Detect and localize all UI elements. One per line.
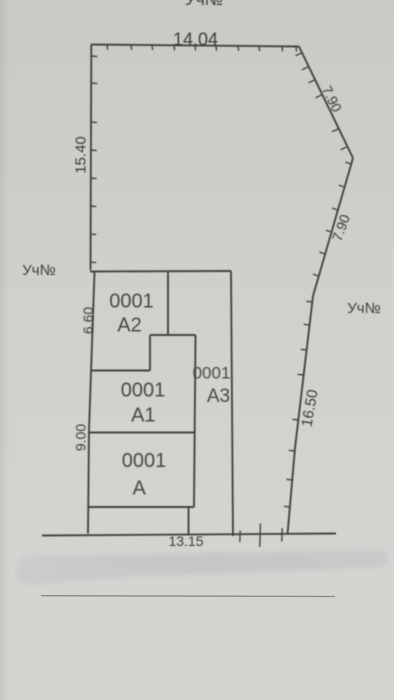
boundary E diagonal (7.90 lower) <box>313 158 353 296</box>
boundary top (14.04) <box>91 45 299 47</box>
svg-text:0001: 0001 <box>122 450 167 472</box>
building block left edge <box>88 272 95 534</box>
svg-text:14.04: 14.04 <box>173 30 218 50</box>
step vertical A2 bottom <box>149 335 151 371</box>
svg-text:Уч№: Уч№ <box>185 0 223 9</box>
svg-text:А2: А2 <box>117 315 141 337</box>
svg-text:А: А <box>133 478 147 500</box>
boundary bottom street line (13.15) <box>42 534 336 536</box>
svg-text:6.60: 6.60 <box>80 307 96 334</box>
svg-text:0001: 0001 <box>121 380 166 402</box>
step vertical below A <box>188 507 190 534</box>
boundary left side (15.40) <box>90 45 93 271</box>
svg-text:9.00: 9.00 <box>72 424 88 451</box>
svg-text:А1: А1 <box>131 405 155 427</box>
svg-text:Уч№: Уч№ <box>347 300 380 317</box>
boundary SE long side (16.50) <box>288 296 314 535</box>
A bottom edge <box>89 506 194 508</box>
divider A2 | A3 <box>167 271 169 335</box>
divider A1 | A <box>90 432 195 434</box>
paper left edge shading <box>0 0 10 700</box>
ticks on SE side <box>284 301 312 507</box>
step horizontal under A2 right <box>150 334 196 336</box>
svg-text:0001: 0001 <box>109 291 154 313</box>
A1/A right edge <box>194 335 196 507</box>
building block top edge <box>90 270 231 273</box>
A2 bottom-left horizontal <box>92 370 151 372</box>
boundary NE diagonal (7.90 upper) <box>299 47 353 159</box>
svg-text:Уч№: Уч№ <box>22 262 55 279</box>
svg-text:13.15: 13.15 <box>168 533 203 549</box>
ticks on NE diagonal <box>296 53 347 150</box>
parcel part A3 right edge <box>231 271 233 536</box>
redaction smudge bar <box>15 550 387 585</box>
svg-text:15.40: 15.40 <box>73 136 90 174</box>
thin line under plan <box>41 595 335 598</box>
ticks on E diagonal <box>313 162 351 276</box>
ticks on left boundary <box>91 56 98 263</box>
bottom line cross ticks <box>240 524 282 548</box>
ticks on top boundary <box>107 45 297 52</box>
svg-text:А3: А3 <box>207 386 230 407</box>
svg-text:0001: 0001 <box>193 364 231 383</box>
